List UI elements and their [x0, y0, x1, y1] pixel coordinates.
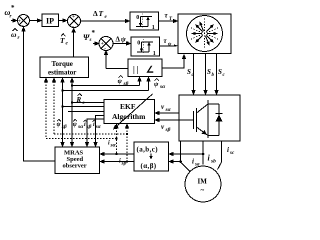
svg-text:| |: | | — [133, 65, 139, 74]
svg-text:(α,β): (α,β) — [141, 162, 157, 170]
wire S_c gate signal — [216, 54, 218, 92]
svg-text:Torque: Torque — [52, 60, 73, 68]
svg-text:r: r — [18, 36, 20, 41]
svg-text:Algorithm: Algorithm — [112, 112, 146, 121]
wire magnitude output to S3 riser — [106, 68, 128, 70]
svg-text:sc: sc — [229, 151, 235, 156]
node psi_s_beta label at angle block — [118, 76, 129, 87]
svg-text:a: a — [192, 73, 195, 78]
svg-text:i: i — [227, 146, 229, 154]
block IP speed controller — [42, 14, 59, 27]
svg-text:sα: sα — [159, 84, 166, 90]
wire phase c from inverter — [218, 141, 222, 170]
wire i_s_beta from transform to MRAS — [103, 161, 134, 163]
svg-text:ω: ω — [11, 30, 17, 39]
svg-text:S: S — [218, 68, 222, 76]
summing junction S1 speed error — [18, 15, 30, 27]
svg-text:s: s — [89, 38, 92, 43]
wire EKF left output to psi alpha net — [63, 106, 105, 108]
node psi_s* reference label — [83, 29, 96, 43]
block inverter — [179, 95, 240, 141]
wire S2 to torque hysteresis — [81, 20, 127, 22]
transistor IGBT with diode inside inverter — [179, 119, 194, 121]
node S_a label — [187, 68, 226, 78]
node psi_s_alpha label at angle block — [154, 79, 166, 90]
block torque hysteresis comparator H1 — [130, 12, 159, 30]
svg-text:sβ: sβ — [121, 161, 127, 167]
wire S_b gate signal — [205, 54, 207, 92]
summing junction S3 flux error — [99, 37, 113, 51]
wire S3 to flux hysteresis — [113, 43, 128, 45]
wire psi_s_alpha estimated flux net — [60, 78, 65, 83]
wire EKF estimated current i_s_beta to MRAS — [87, 119, 104, 142]
svg-text:τ: τ — [165, 12, 169, 20]
svg-text:1: 1 — [152, 25, 155, 31]
svg-text:*: * — [11, 4, 15, 12]
svg-text:sα: sα — [95, 124, 102, 130]
node tau_T label — [165, 12, 174, 23]
block abc to alpha-beta transform — [134, 142, 169, 171]
svg-text:r: r — [10, 15, 12, 20]
svg-text:sβ: sβ — [61, 124, 67, 130]
svg-text:sα: sα — [110, 143, 117, 149]
svg-text:τ: τ — [164, 37, 168, 45]
node tau_psi label — [164, 37, 173, 48]
wire S1 to IP — [30, 20, 39, 22]
svg-text:0: 0 — [136, 15, 139, 21]
svg-text:+: + — [72, 14, 75, 20]
svg-text:ψ: ψ — [57, 122, 62, 128]
wire S_a gate signal — [193, 54, 195, 92]
wire i_s_beta measured dotted net — [52, 78, 57, 83]
wire i_s_alpha measured dotted net — [44, 78, 49, 83]
wire v_s_beta from inverter to EKF — [158, 119, 179, 121]
motor IM — [185, 166, 221, 202]
svg-text:i: i — [192, 158, 194, 166]
svg-text:IM: IM — [198, 178, 208, 186]
node omega_r hat label — [11, 28, 20, 41]
node R_s hat label — [76, 94, 85, 106]
svg-text:sβ: sβ — [165, 127, 171, 133]
node i_sb label — [208, 154, 217, 165]
wire i_s_alpha from transform to MRAS — [103, 153, 134, 155]
svg-text:e: e — [66, 42, 69, 47]
block EKF algorithm — [104, 100, 155, 124]
svg-text:estimator: estimator — [48, 69, 76, 77]
node i_s_alpha label — [108, 141, 117, 149]
svg-text:c: c — [223, 73, 226, 78]
svg-text:e: e — [105, 15, 108, 20]
svg-text:sβ: sβ — [123, 81, 129, 87]
wire H2 to switching table — [160, 45, 175, 47]
svg-text:S: S — [187, 68, 191, 76]
wire T_e estimate riser from torque estimator — [73, 31, 75, 58]
block flux hysteresis comparator H2 — [131, 37, 160, 56]
wire IP to summing junction S2 — [59, 20, 65, 22]
node MRAS input labels psi beta psi alpha i beta i alpha — [57, 119, 102, 130]
block magnitude and angle calculator — [128, 59, 162, 77]
wire phase a from inverter — [181, 141, 191, 172]
svg-text:v: v — [161, 123, 165, 131]
svg-text:v: v — [161, 103, 165, 111]
svg-text:observer: observer — [63, 163, 87, 170]
svg-text:IP: IP — [46, 17, 54, 26]
svg-text:0: 0 — [137, 41, 140, 47]
wire EKF estimated current i_s_alpha to MRAS — [96, 116, 105, 143]
svg-text:sβ: sβ — [86, 124, 92, 130]
wire phase b from inverter — [202, 141, 204, 165]
node delta T_e label — [93, 9, 108, 20]
wire EKF left output inner — [68, 111, 104, 113]
node v_s_alpha label — [161, 103, 172, 113]
svg-text:Δ: Δ — [93, 9, 98, 18]
wire i_sb current tap to transform — [202, 153, 205, 156]
svg-text:1: 1 — [153, 51, 156, 57]
wire i_sa current tap to transform — [179, 160, 182, 163]
node i_sc label — [227, 146, 235, 156]
svg-text:+: + — [18, 18, 21, 24]
svg-text:ψ: ψ — [118, 78, 123, 85]
svg-text:(a,b,c): (a,b,c) — [137, 146, 159, 154]
wire speed reference into summing junction — [11, 20, 15, 22]
wire flux reference into summing junction S3 — [93, 43, 97, 45]
summing junction S2 torque error — [68, 15, 81, 28]
node T_e hat label — [60, 34, 69, 47]
block switching table selector — [178, 14, 231, 54]
wire flux angle from magnitude block to switching table — [162, 57, 184, 68]
svg-text:s: s — [82, 101, 85, 106]
node omega_r* input label — [5, 4, 16, 20]
wire H1 to switching table — [159, 20, 175, 22]
node i_sa label — [192, 158, 200, 168]
wire psi_s_beta estimated flux net (torque est / MRAS / angle block) — [70, 78, 75, 83]
svg-text:S: S — [207, 68, 211, 76]
svg-text:ψ: ψ — [73, 122, 78, 128]
switching table radial arrows — [191, 19, 218, 49]
wire MRAS speed feedback to S1 — [24, 30, 56, 161]
svg-text:*: * — [92, 29, 96, 37]
wire EKF left output R_s to psi beta net — [72, 102, 104, 104]
node delta psi_s label — [116, 36, 129, 46]
wire flux magnitude riser into S3 — [105, 53, 107, 69]
svg-text:ψ: ψ — [121, 36, 126, 44]
svg-text:sα: sα — [165, 107, 172, 113]
svg-text:b: b — [212, 73, 215, 78]
block torque estimator — [40, 57, 89, 78]
block MRAS speed observer — [55, 147, 100, 174]
svg-text:T: T — [99, 9, 104, 18]
svg-text:R: R — [76, 96, 82, 104]
node v_s_beta label — [161, 123, 171, 133]
node i_s_beta label — [119, 159, 127, 167]
svg-text:Δ: Δ — [116, 36, 121, 44]
svg-text:ψ: ψ — [154, 81, 159, 88]
svg-text:∠: ∠ — [146, 65, 154, 75]
svg-text:EKF: EKF — [120, 102, 136, 111]
svg-text:T: T — [60, 36, 65, 45]
svg-text:sb: sb — [210, 159, 216, 165]
svg-text:ψ: ψ — [168, 43, 172, 48]
wire EKF adaptation diagonal arrow — [115, 94, 153, 128]
svg-text:~: ~ — [201, 187, 205, 195]
wire v_s_alpha from inverter to EKF — [158, 112, 179, 114]
